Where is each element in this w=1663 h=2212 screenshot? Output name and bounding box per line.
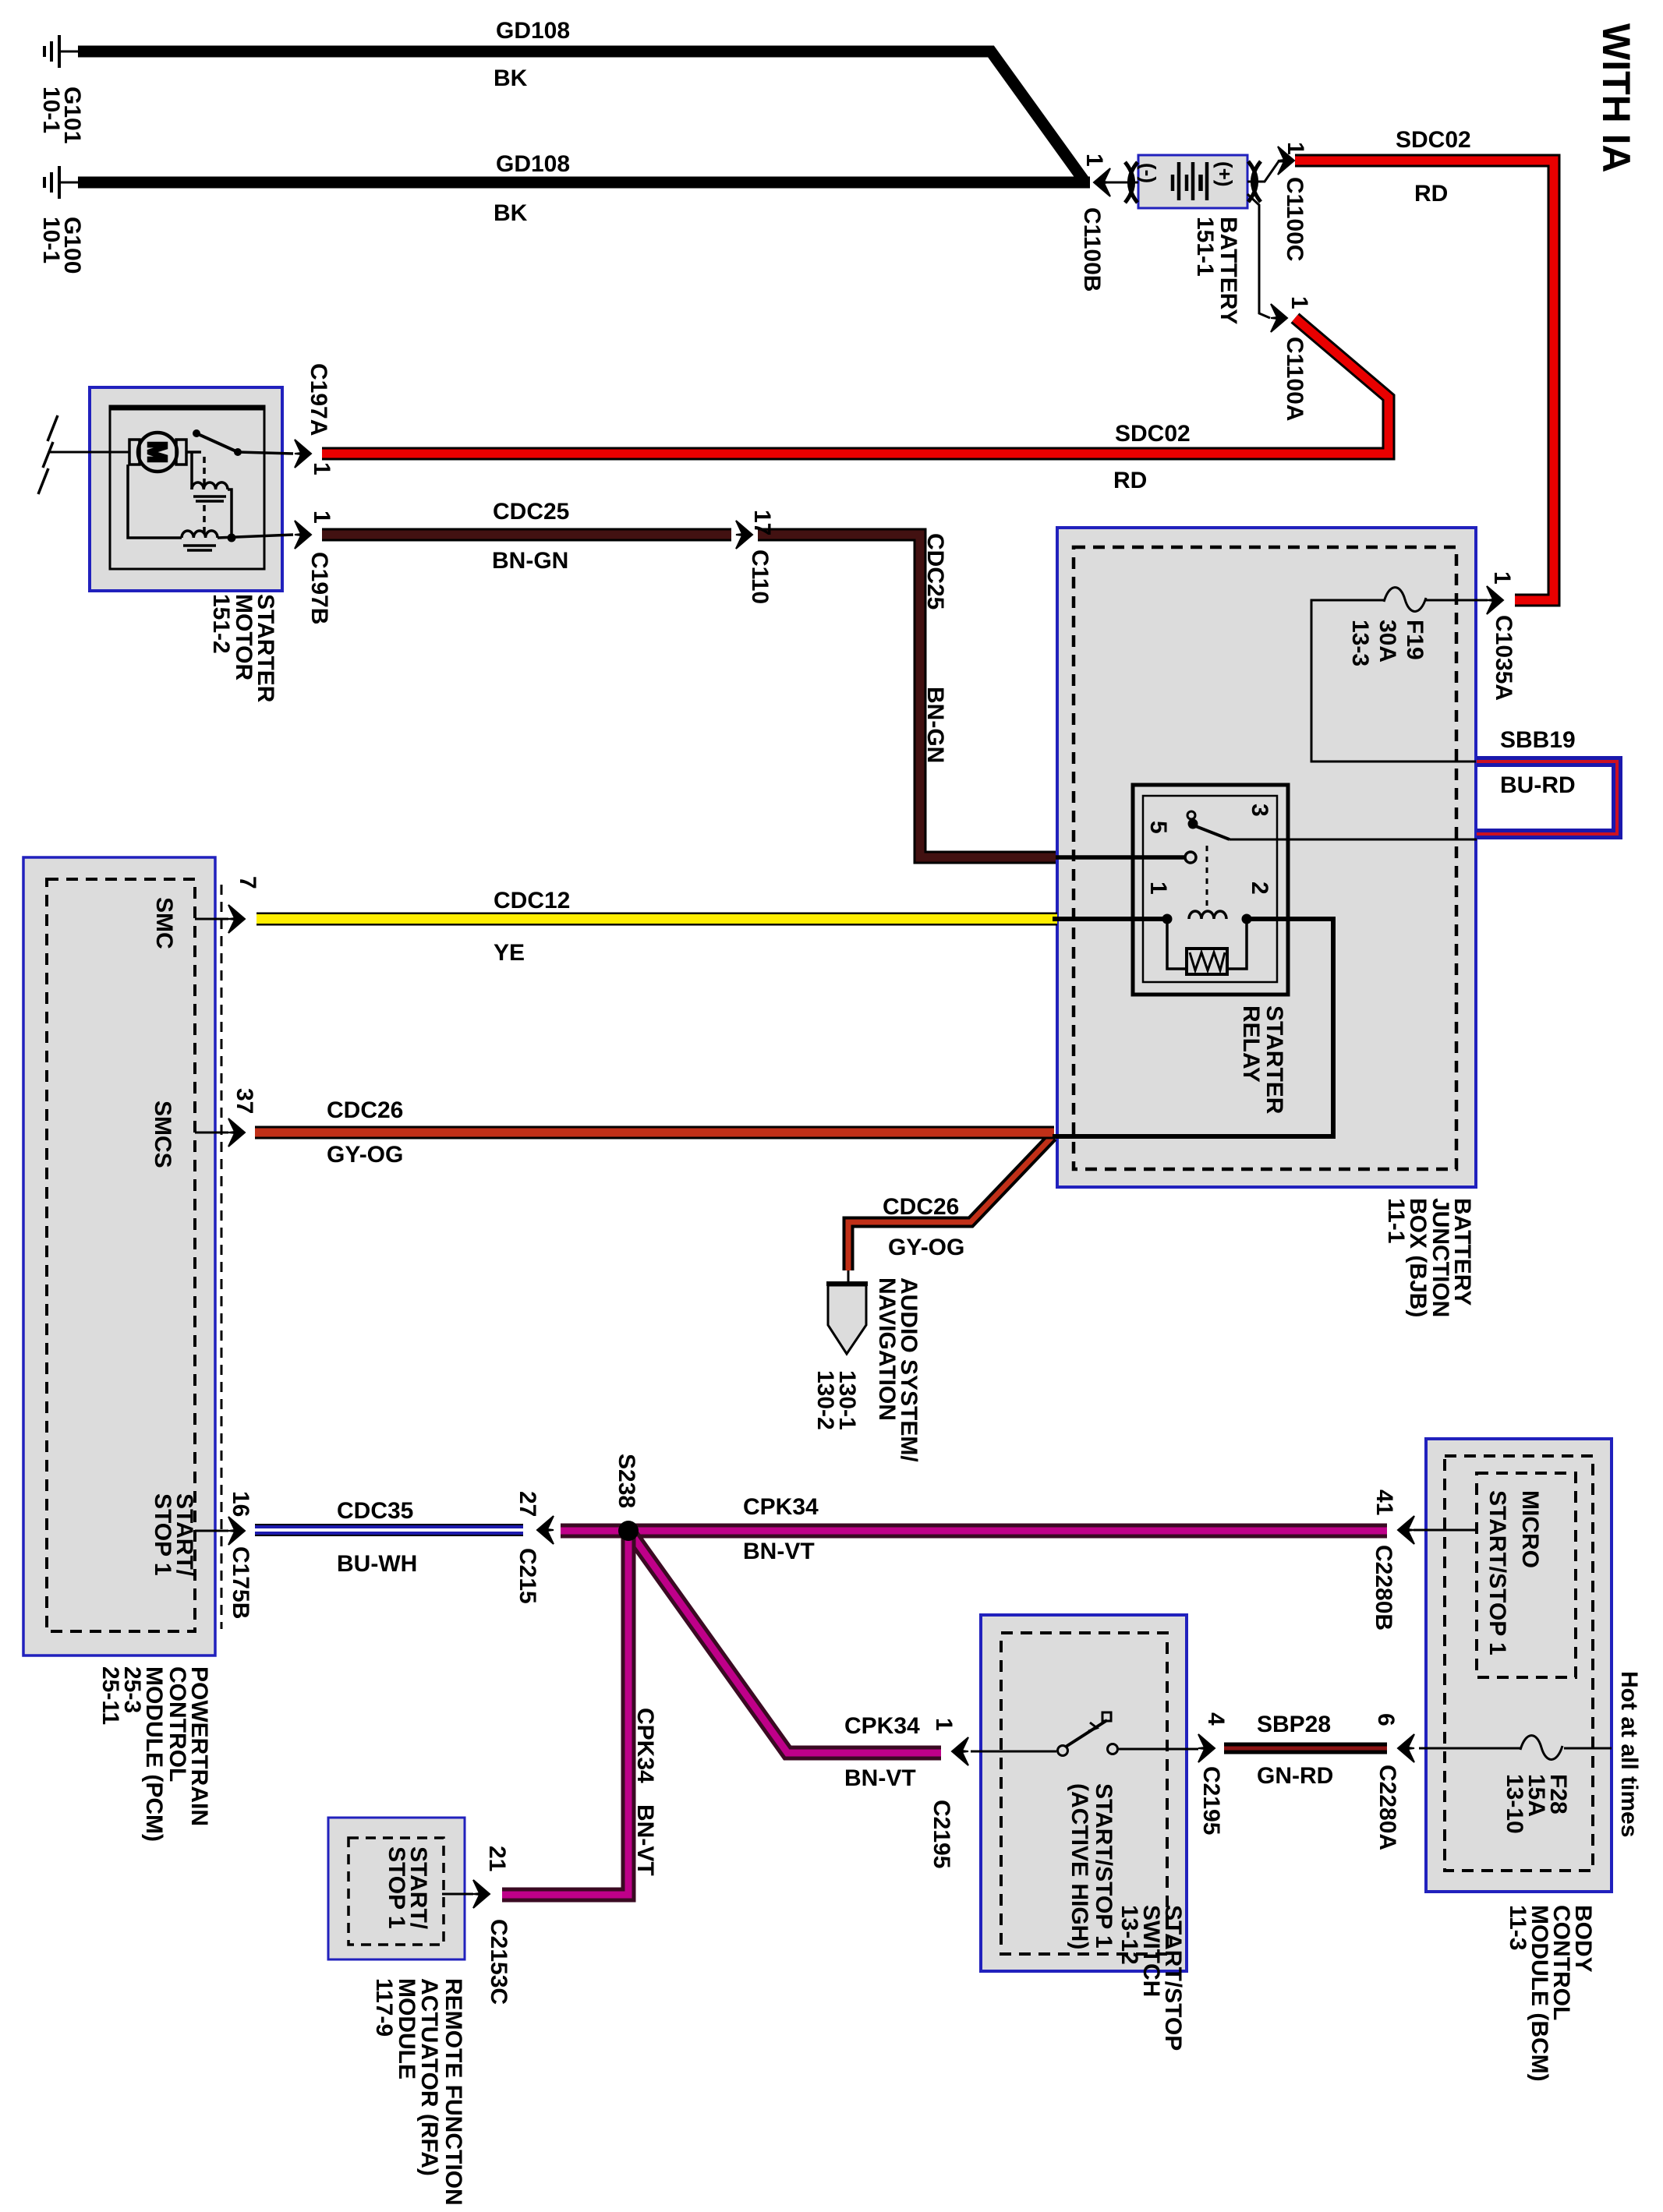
svg-text:117-9: 117-9 <box>371 1978 397 2037</box>
svg-text:C1035A: C1035A <box>1491 615 1516 701</box>
svg-text:RD: RD <box>1113 468 1147 493</box>
svg-text:F19: F19 <box>1402 620 1428 660</box>
svg-text:1: 1 <box>1081 154 1107 167</box>
svg-text:1: 1 <box>1283 142 1308 155</box>
svg-text:1: 1 <box>309 462 334 475</box>
svg-text:C2280A: C2280A <box>1375 1765 1400 1850</box>
svg-text:13-3: 13-3 <box>1347 620 1373 666</box>
svg-text:6: 6 <box>1373 1713 1399 1726</box>
svg-text:CDC35: CDC35 <box>337 1498 413 1524</box>
svg-text:C215: C215 <box>515 1548 540 1604</box>
svg-text:1: 1 <box>1286 296 1312 309</box>
svg-text:30A: 30A <box>1375 620 1400 663</box>
svg-text:GD108: GD108 <box>496 18 570 44</box>
svg-text:CPK34: CPK34 <box>743 1494 819 1520</box>
svg-text:25-11: 25-11 <box>97 1666 123 1725</box>
svg-text:SBP28: SBP28 <box>1257 1712 1331 1737</box>
svg-text:CDC25: CDC25 <box>493 499 569 525</box>
svg-text:BU-WH: BU-WH <box>337 1551 417 1577</box>
svg-text:RELAY: RELAY <box>1238 1005 1264 1083</box>
svg-text:C2280B: C2280B <box>1371 1545 1396 1631</box>
svg-text:WITH IA: WITH IA <box>1594 23 1638 173</box>
svg-text:C2195: C2195 <box>929 1800 954 1868</box>
svg-text:(ACTIVE HIGH): (ACTIVE HIGH) <box>1067 1783 1092 1949</box>
svg-text:(+): (+) <box>1213 161 1237 187</box>
svg-text:REMOTE FUNCTION: REMOTE FUNCTION <box>441 1978 466 2206</box>
svg-text:C1100A: C1100A <box>1282 337 1307 421</box>
svg-text:GY-OG: GY-OG <box>888 1235 964 1260</box>
svg-text:C2195: C2195 <box>1198 1766 1224 1835</box>
svg-text:151-2: 151-2 <box>208 594 234 654</box>
svg-text:10-1: 10-1 <box>38 217 64 263</box>
svg-text:BU-RD: BU-RD <box>1500 772 1576 798</box>
svg-text:NAVIGATION: NAVIGATION <box>874 1277 900 1421</box>
svg-text:BN-GN: BN-GN <box>492 548 568 574</box>
svg-text:CDC12: CDC12 <box>494 888 570 913</box>
svg-text:C1100C: C1100C <box>1282 177 1307 261</box>
svg-text:4: 4 <box>1203 1712 1229 1726</box>
svg-text:YE: YE <box>494 940 525 966</box>
svg-text:Hot at all times: Hot at all times <box>1616 1671 1642 1837</box>
svg-text:C197A: C197A <box>306 363 331 436</box>
svg-text:2: 2 <box>1247 882 1272 895</box>
svg-text:7: 7 <box>235 876 260 889</box>
svg-text:3: 3 <box>1247 804 1272 817</box>
svg-text:BN-VT: BN-VT <box>743 1539 815 1564</box>
svg-text:GY-OG: GY-OG <box>327 1142 403 1168</box>
svg-text:17: 17 <box>749 510 775 535</box>
svg-text:11-3: 11-3 <box>1505 1905 1530 1950</box>
svg-text:13-10: 13-10 <box>1502 1774 1527 1834</box>
svg-text:STOP 1: STOP 1 <box>384 1846 409 1929</box>
svg-text:BN-GN: BN-GN <box>922 687 948 763</box>
svg-text:BATTERY: BATTERY <box>1215 217 1241 324</box>
svg-text:STOP 1: STOP 1 <box>150 1493 175 1576</box>
svg-text:5: 5 <box>1145 821 1171 834</box>
svg-text:C2153C: C2153C <box>486 1919 511 2005</box>
svg-text:1: 1 <box>1145 882 1171 895</box>
svg-text:BN-VT: BN-VT <box>632 1804 658 1876</box>
svg-text:41: 41 <box>1371 1489 1397 1515</box>
svg-text:BN-VT: BN-VT <box>844 1765 916 1791</box>
svg-text:CDC25: CDC25 <box>922 533 948 610</box>
svg-text:BK: BK <box>494 200 528 226</box>
svg-text:37: 37 <box>232 1088 257 1114</box>
svg-text:C197B: C197B <box>306 552 332 624</box>
svg-text:16: 16 <box>228 1491 253 1517</box>
svg-text:1: 1 <box>931 1718 957 1731</box>
svg-text:130-2: 130-2 <box>812 1370 838 1430</box>
svg-text:21: 21 <box>484 1846 510 1871</box>
svg-text:C1100B: C1100B <box>1079 207 1105 292</box>
svg-text:CPK34: CPK34 <box>632 1708 658 1783</box>
svg-text:RD: RD <box>1414 181 1448 207</box>
svg-text:11-1: 11-1 <box>1383 1198 1409 1243</box>
svg-text:CPK34: CPK34 <box>844 1713 920 1739</box>
svg-text:CDC26: CDC26 <box>883 1194 959 1220</box>
svg-text:BK: BK <box>494 65 528 91</box>
svg-text:13-12: 13-12 <box>1116 1905 1142 1965</box>
svg-text:1: 1 <box>309 511 334 524</box>
svg-text:GN-RD: GN-RD <box>1257 1763 1333 1789</box>
svg-text:27: 27 <box>515 1491 540 1517</box>
svg-text:GD108: GD108 <box>496 151 570 177</box>
svg-text:CDC26: CDC26 <box>327 1097 403 1123</box>
svg-text:SMC: SMC <box>151 897 177 949</box>
svg-text:C175B: C175B <box>228 1546 253 1619</box>
svg-text:M: M <box>143 441 172 463</box>
svg-text:CONTROL: CONTROL <box>165 1666 190 1782</box>
svg-text:S238: S238 <box>614 1454 639 1508</box>
svg-text:SMCS: SMCS <box>150 1101 175 1168</box>
svg-text:(-): (-) <box>1137 163 1160 183</box>
svg-text:START/STOP 1: START/STOP 1 <box>1091 1783 1116 1949</box>
svg-text:SBB19: SBB19 <box>1500 727 1576 753</box>
svg-text:10-1: 10-1 <box>38 87 64 133</box>
svg-text:C110: C110 <box>747 549 773 604</box>
svg-text:MICRO: MICRO <box>1517 1490 1543 1568</box>
svg-text:SDC02: SDC02 <box>1115 421 1191 447</box>
svg-text:SDC02: SDC02 <box>1396 127 1471 153</box>
svg-text:START/STOP 1: START/STOP 1 <box>1484 1490 1510 1655</box>
svg-text:1: 1 <box>1489 571 1515 585</box>
svg-text:151-1: 151-1 <box>1192 217 1218 277</box>
svg-text:STARTER: STARTER <box>1261 1005 1287 1115</box>
